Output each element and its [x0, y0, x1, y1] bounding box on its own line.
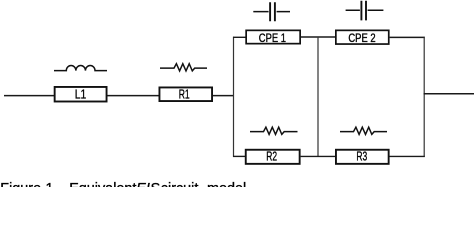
middle rail wire	[317, 37, 319, 157]
svg-text:L1: L1	[75, 87, 87, 102]
svg-text:R3: R3	[356, 149, 367, 164]
capacitor CPE1 symbol	[253, 2, 290, 21]
wire output	[424, 93, 474, 95]
wire L1 to R1	[108, 95, 160, 97]
right rail wire	[423, 37, 425, 157]
wire input	[4, 95, 55, 97]
component box CPE2	[336, 30, 389, 44]
component box R3	[336, 150, 389, 164]
wire CPE2 to right rail	[390, 36, 425, 38]
svg-text:Figure: Figure	[0, 181, 41, 187]
component box R2	[246, 150, 300, 164]
wire stub to CPE1	[233, 36, 246, 38]
resistor R3 symbol	[340, 127, 387, 134]
svg-text:CPE 2: CPE 2	[348, 33, 375, 45]
svg-text:R2: R2	[266, 149, 277, 164]
caption Figure 1	[0, 181, 246, 197]
svg-text:CPE 1: CPE 1	[259, 33, 286, 45]
inductor L1 symbol	[54, 65, 107, 70]
capacitor CPE2 symbol	[346, 1, 384, 21]
wire R1 to left rail	[213, 95, 234, 97]
svg-text:Equivalent: Equivalent	[69, 181, 136, 187]
component box CPE1	[246, 30, 300, 43]
wire CPE1 to CPE2	[301, 36, 336, 38]
left rail wire	[233, 37, 235, 157]
svg-text:circuit: circuit	[161, 181, 199, 187]
resistor R2 symbol	[250, 127, 298, 134]
svg-text:EIS: EIS	[136, 181, 160, 187]
svg-text:1.: 1.	[46, 181, 58, 187]
svg-text:model: model	[207, 181, 246, 187]
resistor R1 symbol	[160, 64, 207, 71]
wire R3 to right rail	[389, 155, 425, 157]
wire stub to R2	[233, 155, 245, 157]
wire R2 to R3	[301, 155, 336, 157]
component box L1	[55, 87, 107, 102]
component box R1	[159, 87, 212, 101]
svg-text:R1: R1	[179, 87, 190, 102]
